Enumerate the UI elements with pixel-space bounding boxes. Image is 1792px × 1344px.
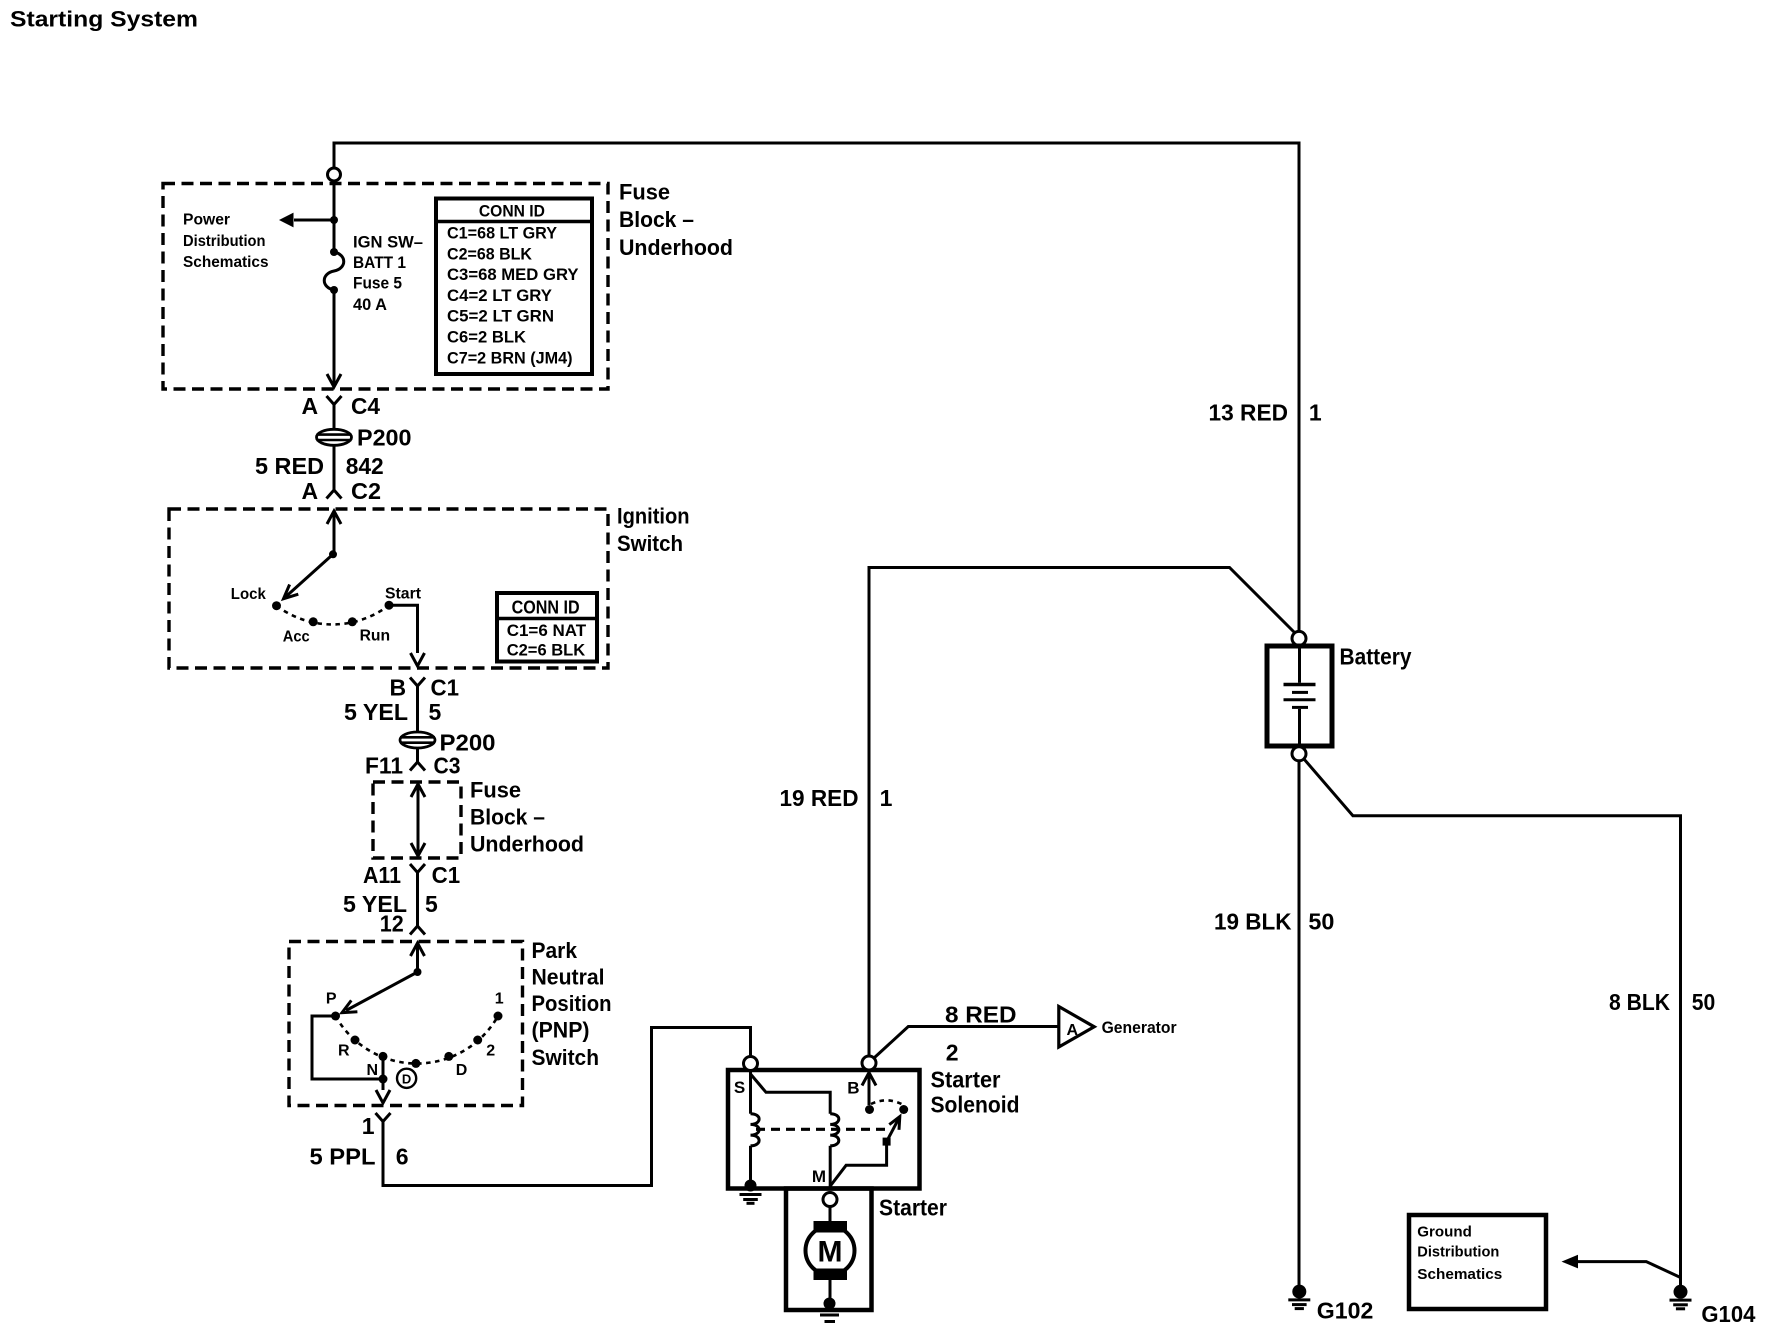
svg-text:8 RED: 8 RED [945, 1001, 1017, 1027]
svg-text:B: B [847, 1079, 859, 1098]
svg-text:2: 2 [486, 1043, 495, 1060]
svg-text:IGN SW–: IGN SW– [353, 233, 423, 252]
svg-text:C3: C3 [434, 753, 461, 779]
svg-text:S: S [734, 1078, 745, 1097]
svg-text:Starter: Starter [931, 1067, 1001, 1093]
svg-text:842: 842 [346, 453, 384, 479]
svg-text:8 BLK: 8 BLK [1609, 989, 1670, 1015]
svg-text:Run: Run [360, 628, 391, 645]
svg-text:Starting System: Starting System [10, 7, 198, 32]
svg-text:12: 12 [380, 911, 404, 937]
svg-text:Block –: Block – [470, 805, 545, 830]
svg-text:R: R [338, 1043, 350, 1060]
svg-text:Neutral: Neutral [532, 965, 605, 990]
svg-text:CONN ID: CONN ID [479, 202, 545, 221]
svg-text:19 BLK: 19 BLK [1214, 909, 1292, 935]
svg-text:Distribution: Distribution [183, 233, 266, 250]
svg-text:Switch: Switch [532, 1045, 600, 1070]
svg-text:13 RED: 13 RED [1209, 400, 1289, 426]
svg-text:50: 50 [1308, 909, 1334, 935]
svg-text:A11: A11 [363, 862, 401, 888]
svg-text:Underhood: Underhood [619, 235, 733, 260]
svg-text:C3=68 MED GRY: C3=68 MED GRY [447, 265, 579, 284]
svg-text:Underhood: Underhood [470, 832, 584, 857]
svg-text:Lock: Lock [231, 586, 266, 603]
svg-text:Park: Park [532, 938, 578, 963]
svg-text:Battery: Battery [1340, 644, 1412, 670]
svg-text:Solenoid: Solenoid [931, 1092, 1020, 1118]
svg-text:Schematics: Schematics [183, 254, 269, 271]
svg-text:C1: C1 [432, 862, 461, 888]
svg-text:Schematics: Schematics [1417, 1266, 1502, 1283]
svg-text:5 PPL: 5 PPL [310, 1144, 376, 1170]
svg-text:D: D [402, 1072, 411, 1087]
svg-text:1: 1 [495, 991, 504, 1008]
svg-text:Acc: Acc [283, 629, 310, 646]
svg-text:Power: Power [183, 212, 230, 229]
svg-text:Generator: Generator [1102, 1019, 1178, 1037]
svg-text:19 RED: 19 RED [780, 785, 859, 811]
svg-text:M: M [812, 1167, 826, 1186]
svg-text:C6=2 BLK: C6=2 BLK [447, 328, 527, 347]
svg-text:A: A [302, 478, 319, 504]
svg-text:1: 1 [1309, 400, 1322, 426]
svg-text:G104: G104 [1701, 1301, 1755, 1327]
svg-text:N: N [366, 1062, 378, 1079]
svg-text:1: 1 [362, 1113, 375, 1139]
svg-text:C5=2 LT GRN: C5=2 LT GRN [447, 307, 554, 326]
svg-text:Ground: Ground [1417, 1224, 1472, 1241]
svg-text:C1=68 LT GRY: C1=68 LT GRY [447, 224, 558, 243]
svg-text:Fuse: Fuse [619, 179, 670, 204]
svg-text:B: B [390, 675, 407, 701]
svg-text:40 A: 40 A [353, 295, 387, 314]
svg-text:G102: G102 [1317, 1298, 1374, 1324]
svg-text:1: 1 [880, 785, 893, 811]
svg-text:C2=68 BLK: C2=68 BLK [447, 244, 533, 263]
svg-text:5: 5 [429, 699, 442, 725]
svg-text:Distribution: Distribution [1417, 1244, 1499, 1261]
svg-text:6: 6 [396, 1144, 409, 1170]
svg-text:Switch: Switch [617, 531, 683, 556]
svg-text:P200: P200 [440, 729, 496, 755]
svg-text:C2=6 BLK: C2=6 BLK [507, 641, 586, 660]
svg-text:(PNP): (PNP) [532, 1018, 590, 1043]
svg-text:Start: Start [385, 586, 422, 603]
svg-text:D: D [456, 1062, 468, 1079]
svg-text:M: M [818, 1236, 843, 1269]
svg-text:A: A [302, 393, 319, 419]
svg-text:5 RED: 5 RED [255, 453, 324, 479]
svg-text:C4: C4 [351, 393, 380, 419]
svg-text:CONN ID: CONN ID [512, 597, 580, 618]
svg-text:Block –: Block – [619, 207, 694, 232]
svg-text:F11: F11 [365, 753, 403, 779]
svg-text:Ignition: Ignition [617, 504, 690, 529]
svg-text:C1=6 NAT: C1=6 NAT [507, 621, 587, 640]
svg-text:C1: C1 [431, 675, 460, 701]
svg-text:5 YEL: 5 YEL [344, 699, 408, 725]
svg-text:50: 50 [1692, 989, 1716, 1015]
svg-text:P: P [326, 991, 337, 1008]
svg-text:BATT 1: BATT 1 [353, 253, 406, 272]
svg-text:C7=2 BRN (JM4): C7=2 BRN (JM4) [447, 348, 573, 367]
svg-text:A: A [1067, 1022, 1079, 1039]
svg-text:P200: P200 [357, 425, 412, 451]
svg-text:C2: C2 [351, 478, 381, 504]
svg-text:Fuse 5: Fuse 5 [353, 274, 402, 293]
svg-text:Fuse: Fuse [470, 778, 521, 803]
svg-text:Position: Position [532, 991, 612, 1016]
svg-text:5: 5 [425, 891, 438, 917]
svg-text:Starter: Starter [879, 1195, 947, 1221]
svg-text:C4=2 LT GRY: C4=2 LT GRY [447, 286, 553, 305]
svg-text:2: 2 [946, 1040, 959, 1066]
